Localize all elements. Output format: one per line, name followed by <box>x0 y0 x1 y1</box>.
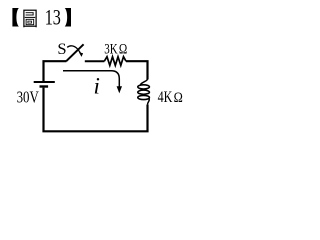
inductor 4K coil <box>138 78 150 105</box>
svg-text:i: i <box>94 73 100 98</box>
wire switch to resistor <box>85 60 105 62</box>
current arrow <box>63 71 119 87</box>
wire top-left segment <box>44 61 67 81</box>
svg-text:S: S <box>57 41 66 58</box>
svg-text:13: 13 <box>45 4 61 29</box>
title glyph 圖 <box>24 10 36 27</box>
battery 30V short plate <box>40 85 49 87</box>
switch S blade <box>66 44 83 61</box>
svg-text:3K: 3K <box>104 40 117 57</box>
wire resistor to top-right corner <box>126 61 148 79</box>
svg-text:30V: 30V <box>17 88 39 107</box>
resistor 3K zigzag <box>104 57 126 66</box>
svg-text:Ω: Ω <box>119 41 127 57</box>
title bracket left 【 <box>12 8 19 27</box>
svg-text:Ω: Ω <box>174 89 183 106</box>
wire left-bottom-right loop <box>44 88 148 132</box>
title bracket right 】 <box>65 8 71 27</box>
battery 30V long plate <box>34 81 55 83</box>
switch S arc arrow <box>67 46 81 54</box>
svg-text:4K: 4K <box>158 89 173 106</box>
